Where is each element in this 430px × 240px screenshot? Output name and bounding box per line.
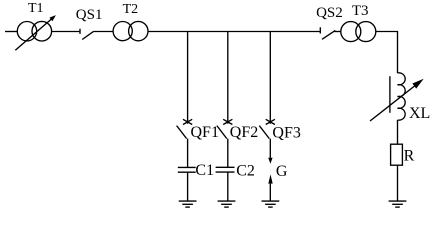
disconnector QS1 fixed contact [79, 29, 81, 34]
wire: gap to ground [269, 184, 271, 202]
wire: bus tap to QF2 [227, 32, 229, 124]
wire: QF3 to gap arrow [269, 139, 271, 159]
svg-text:XL: XL [409, 105, 430, 122]
reactor XL winding [398, 73, 406, 120]
resistor R [391, 144, 403, 165]
breaker QF3 blade [259, 126, 269, 139]
reactor XL variability arrow [370, 85, 416, 121]
transformer T2 [113, 22, 132, 41]
gap electrode arrow up [268, 174, 272, 183]
transformer T1 [17, 22, 36, 41]
wire: QS2 to T3 [335, 31, 341, 33]
svg-text:QF2: QF2 [230, 124, 258, 141]
capacitor C1 [178, 166, 196, 168]
wire: bus tap to QF3 [269, 32, 271, 124]
breaker QF2 blade [217, 126, 227, 139]
capacitor C2 [216, 166, 235, 168]
wire: QF2 to C2 [227, 139, 229, 168]
breaker QF2 contact cross [223, 119, 232, 124]
svg-text:T3: T3 [352, 3, 369, 19]
disconnector QS1 blade [82, 31, 94, 39]
svg-text:QF1: QF1 [191, 124, 219, 141]
ground: branch 3 [262, 200, 280, 202]
svg-text:T1: T1 [28, 1, 44, 16]
wire: R to ground [397, 165, 399, 201]
wire: QS1 to T2 [94, 31, 113, 33]
breaker QF1 contact cross [183, 119, 192, 124]
breaker QF1 blade [177, 126, 187, 139]
wire: QF1 to C1 [187, 139, 189, 168]
svg-text:QF3: QF3 [272, 125, 300, 142]
disconnector QS2 fixed contact [319, 27, 321, 33]
disconnector QS2 blade [322, 30, 335, 39]
transformer T3 [341, 22, 361, 42]
breaker QF3 contact cross [266, 119, 275, 124]
svg-text:C1: C1 [195, 162, 214, 179]
svg-text:G: G [276, 163, 288, 180]
ground: right branch [389, 200, 407, 202]
wire: T1 to QS1 [52, 31, 80, 33]
wire: source line into T1 [5, 31, 17, 33]
T1 tap-changer arrow [15, 17, 53, 50]
gap electrode arrow down (to G) [268, 158, 272, 164]
reactor XL core bar [389, 76, 391, 113]
svg-text:QS2: QS2 [316, 5, 343, 21]
wire: XL to R [397, 120, 399, 144]
wire: bus tap to QF1 [187, 32, 189, 124]
wire: T3 to right branch corner [376, 32, 398, 74]
svg-text:QS1: QS1 [76, 7, 103, 23]
svg-text:T2: T2 [123, 2, 139, 17]
svg-text:C2: C2 [236, 163, 255, 180]
svg-text:R: R [404, 148, 415, 165]
ground: branch 2 [218, 200, 236, 202]
wire: C1 to ground [187, 172, 189, 201]
wire: C2 to ground [227, 172, 229, 201]
ground: branch 1 [179, 200, 197, 202]
wire: bus from T2 to QS2 [148, 31, 320, 33]
